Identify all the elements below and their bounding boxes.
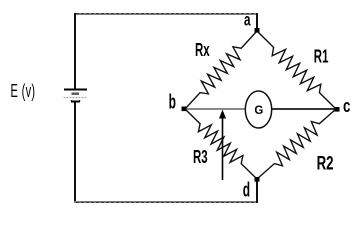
wire top horizontal (battery to node a drop): [74, 13, 258, 16]
svg-text:R3: R3: [193, 147, 208, 167]
resistor R3 variable (between node b and node d): [185, 109, 257, 179]
svg-text:R1: R1: [314, 47, 329, 67]
svg-text:b: b: [169, 92, 176, 114]
resistor R1 (between node a and node c): [257, 31, 336, 109]
wire vertical from node d to bottom wire: [256, 180, 258, 203]
wire bottom horizontal (left vertical to node d drop): [74, 201, 258, 204]
arrow of variable resistor R3: [219, 110, 226, 181]
node d: [243, 177, 260, 201]
node a: [244, 10, 260, 33]
resistor Rx (between node a and node b): [185, 31, 257, 109]
battery E1: [64, 90, 88, 102]
svg-text:R2: R2: [317, 152, 334, 174]
svg-text:E (v): E (v): [11, 81, 36, 102]
node c: [335, 96, 351, 117]
node b: [169, 92, 187, 114]
wire galvanometer to node c: [272, 108, 335, 110]
wire vertical drop into node a: [256, 13, 258, 30]
svg-text:c: c: [343, 96, 350, 117]
svg-text:Rx: Rx: [195, 40, 210, 60]
galvanometer G: [245, 91, 271, 128]
svg-text:G: G: [254, 105, 263, 117]
wire left vertical lower (battery down to bottom wire): [74, 102, 76, 203]
wire node b to galvanometer: [186, 108, 245, 110]
wire left vertical upper (top wire down to battery): [74, 13, 76, 89]
resistor R2 (between node c and node d): [257, 109, 336, 179]
svg-text:d: d: [243, 180, 250, 202]
svg-text:a: a: [244, 10, 251, 30]
